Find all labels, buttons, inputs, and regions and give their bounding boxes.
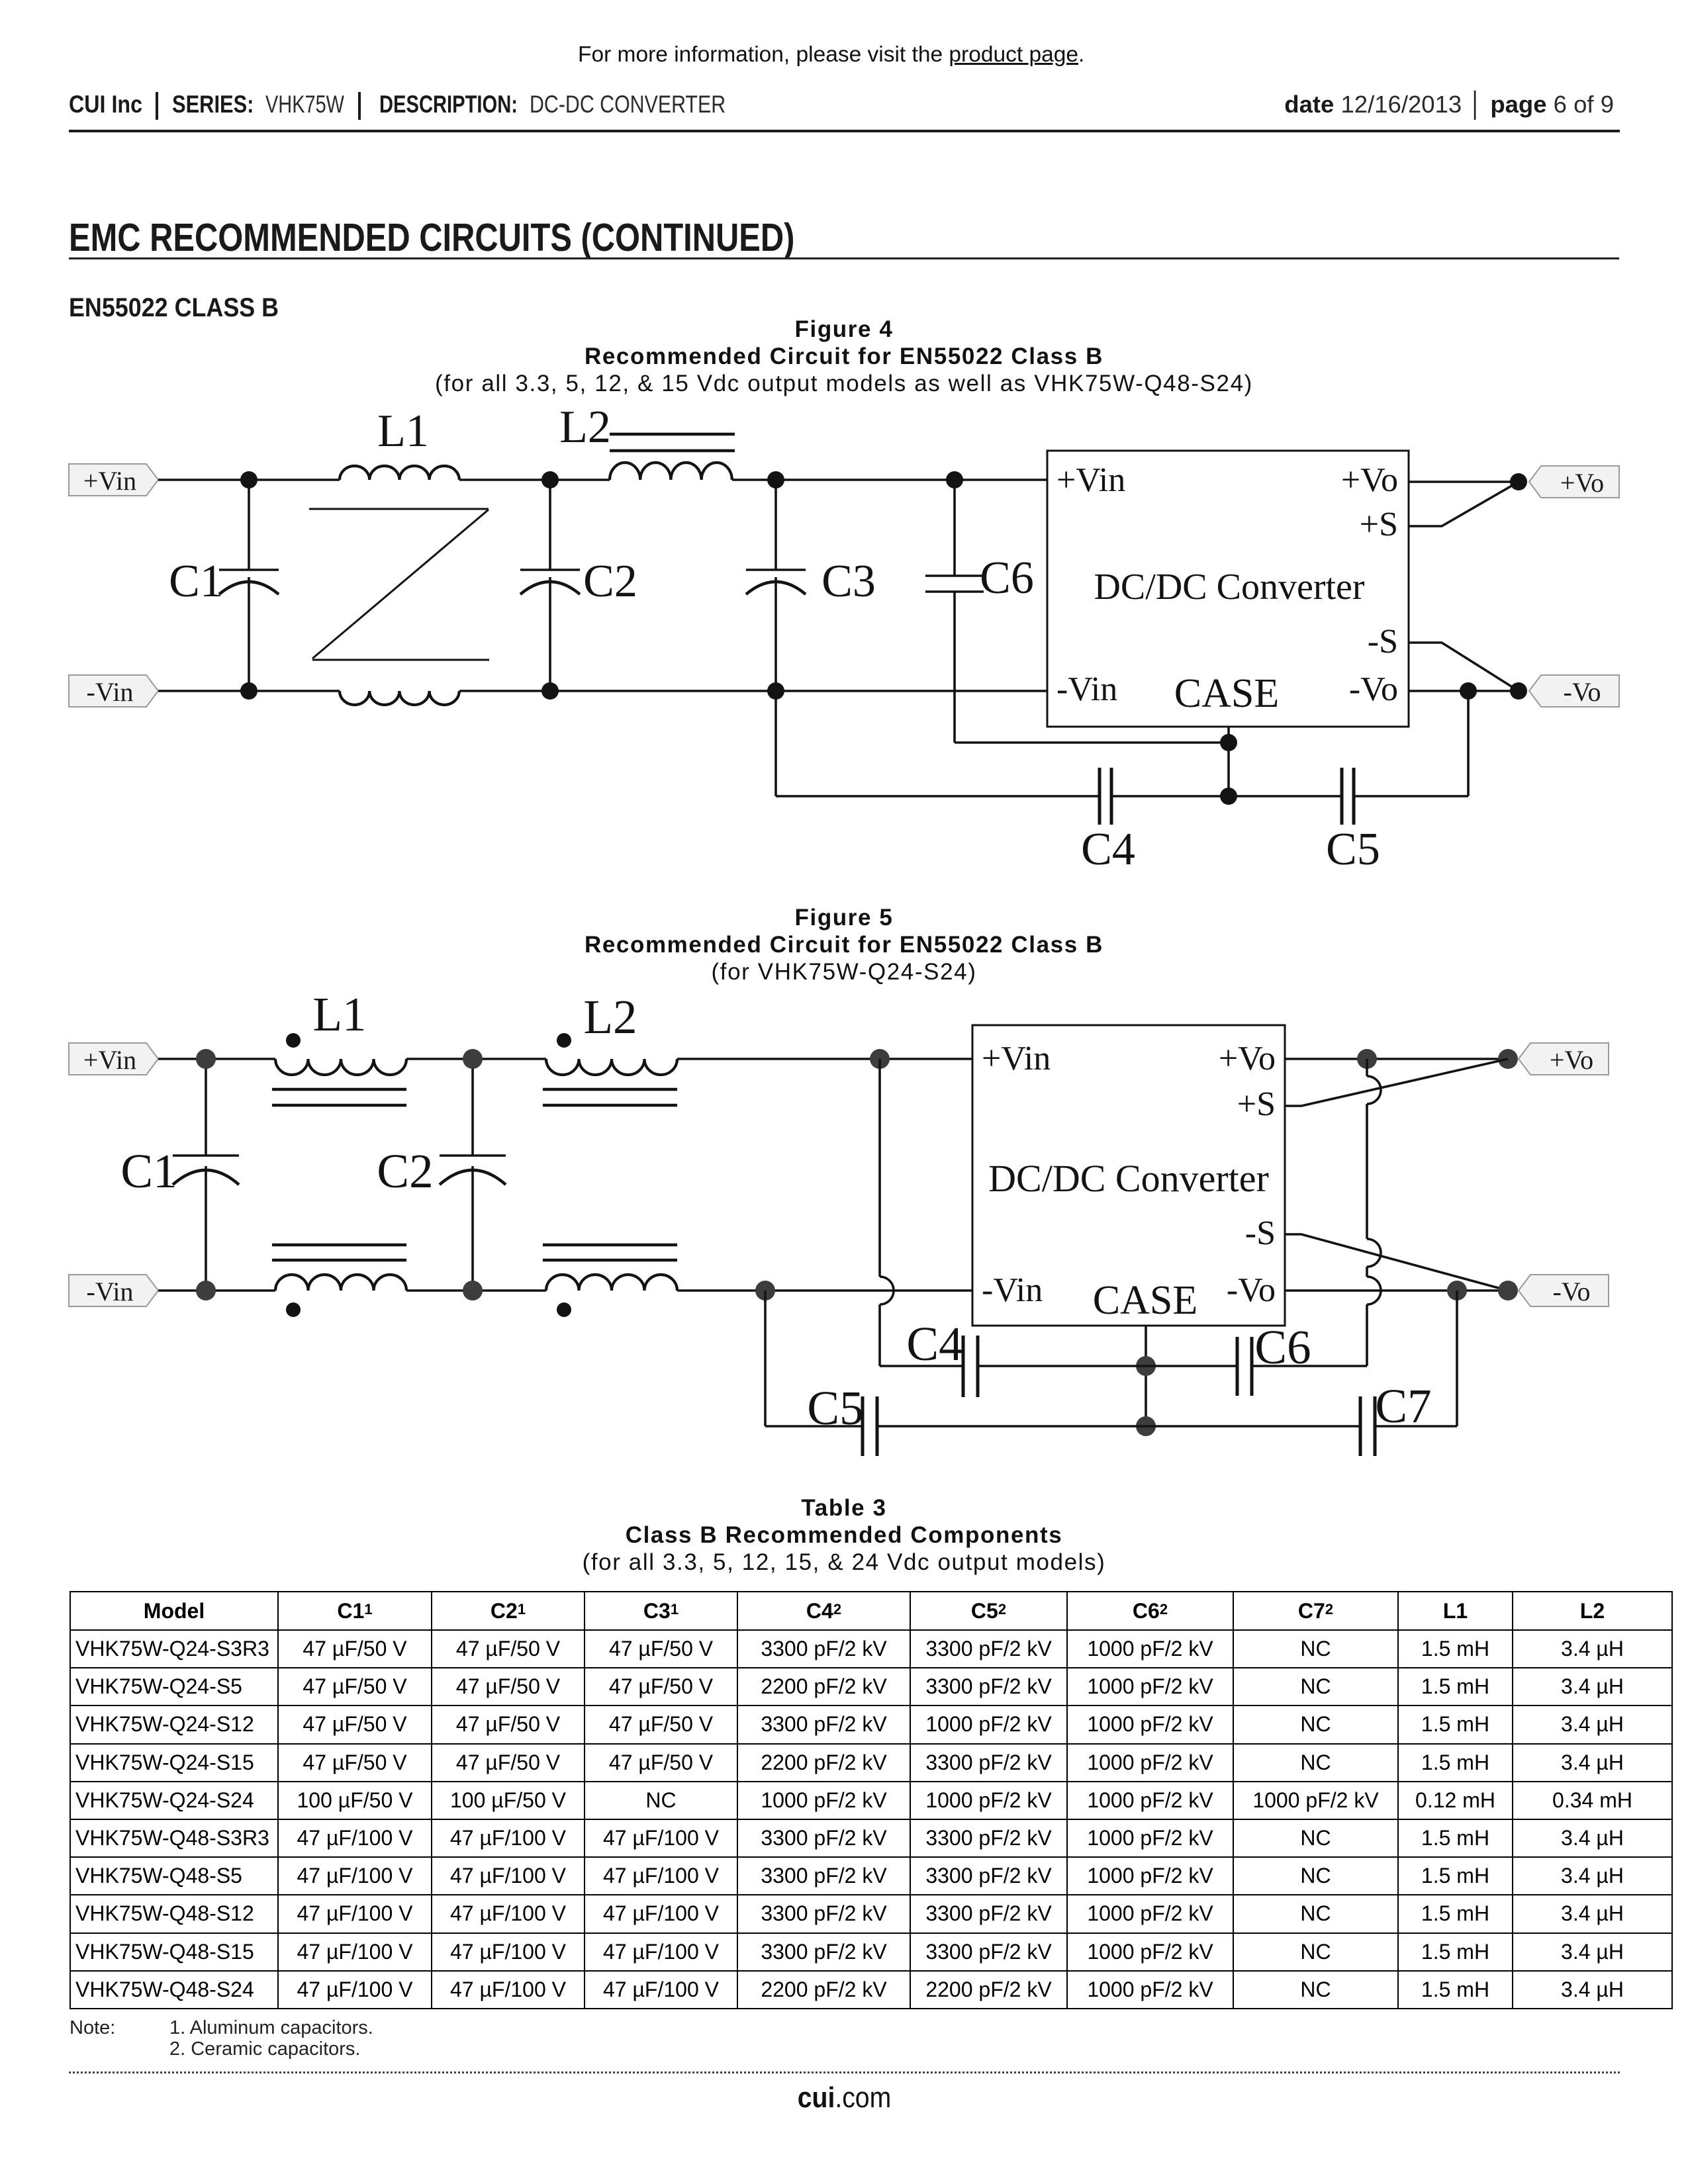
inductor L2 (fig 4) xyxy=(559,402,735,480)
svg-text:C6: C6 xyxy=(1254,1320,1311,1374)
junction dots CASE (fig 5) xyxy=(1136,1356,1156,1436)
svg-text:C6: C6 xyxy=(980,553,1034,604)
svg-text:+S: +S xyxy=(1237,1085,1276,1123)
node -Vin input tag (fig 5) xyxy=(69,1275,158,1306)
svg-text:L1: L1 xyxy=(377,406,429,457)
svg-text:L1: L1 xyxy=(312,987,366,1041)
svg-text:L2: L2 xyxy=(583,990,637,1044)
wire -S pin (fig 4) xyxy=(1409,643,1519,691)
figure 4 titles xyxy=(0,316,1688,397)
wire -Vin rail (fig 5) xyxy=(158,1289,972,1292)
svg-text:-Vo: -Vo xyxy=(1227,1271,1276,1309)
wire C5 riser (fig 5) xyxy=(764,1291,767,1426)
top info line xyxy=(578,43,1084,67)
svg-text:-Vin: -Vin xyxy=(1056,670,1117,708)
svg-text:C4: C4 xyxy=(1081,824,1135,875)
figure 5 titles xyxy=(0,904,1688,985)
wire C4-C6 bus (fig 5) xyxy=(880,1365,1367,1367)
node -Vo output tag (fig 5) xyxy=(1519,1275,1609,1306)
wire +Vin rail (fig 5) xyxy=(158,1058,972,1060)
inductor L1 common-mode choke (fig 5) xyxy=(272,987,406,1317)
wire CASE pin (fig 5) xyxy=(1145,1326,1147,1426)
junction dots C3 (fig 4) xyxy=(767,471,784,700)
capacitor C6 (fig 5) xyxy=(1237,1320,1311,1396)
wire C6 riser with hops (fig 5) xyxy=(1367,1059,1381,1366)
svg-text:-Vo: -Vo xyxy=(1552,1277,1590,1306)
node +Vo output tag (fig 5) xyxy=(1519,1043,1609,1075)
svg-text:-S: -S xyxy=(1245,1214,1276,1252)
capacitor C7 (fig 5) xyxy=(1360,1379,1432,1456)
svg-text:+Vo: +Vo xyxy=(1560,468,1604,498)
wire +Vo pin (fig 5) xyxy=(1285,1058,1508,1060)
wire +Vo pin (fig 4) xyxy=(1409,480,1519,483)
node -Vin input tag (fig 4) xyxy=(69,675,158,707)
wire C4 riser with hop (fig 5) xyxy=(880,1059,894,1366)
svg-text:+S: +S xyxy=(1360,506,1398,543)
wire +Vin rail left (fig 4) xyxy=(158,478,1047,481)
node -Vo output tag (fig 4) xyxy=(1529,675,1619,707)
node +Vo output tag (fig 4) xyxy=(1529,466,1619,498)
inductor L1 common-mode choke (fig 4) xyxy=(309,406,489,705)
wire C6 to CASE (fig 4) xyxy=(955,741,1229,744)
capacitor C3 (fig 4) xyxy=(746,480,876,796)
svg-text:C5: C5 xyxy=(807,1381,863,1435)
junction dots +Vo (fig 5) xyxy=(1357,1049,1518,1069)
junction dots -Vo (fig 4) xyxy=(1460,682,1527,700)
table 3 xyxy=(70,1591,1673,2009)
svg-text:L2: L2 xyxy=(559,402,611,453)
svg-text:C1: C1 xyxy=(120,1144,177,1198)
capacitor C2 (fig 4) xyxy=(520,480,637,691)
node +Vin input tag (fig 4) xyxy=(69,464,158,496)
svg-text:+Vin: +Vin xyxy=(982,1040,1051,1077)
section title xyxy=(69,217,945,258)
svg-text:-Vin: -Vin xyxy=(87,1277,134,1306)
svg-text:CASE: CASE xyxy=(1174,671,1279,716)
junction dots C2 (fig 5) xyxy=(463,1049,483,1300)
svg-text:C3: C3 xyxy=(821,556,876,607)
wire -Vo pin (fig 4) xyxy=(1409,690,1519,692)
junction dot bottom rail x1156 (fig 5) xyxy=(755,1281,775,1300)
svg-text:C4: C4 xyxy=(906,1317,962,1371)
svg-text:+Vin: +Vin xyxy=(1056,461,1125,499)
svg-text:CASE: CASE xyxy=(1093,1278,1197,1323)
svg-text:DC/DC Converter: DC/DC Converter xyxy=(1094,567,1364,608)
junction dot CASE (fig 4) xyxy=(1220,734,1237,751)
svg-text:-Vin: -Vin xyxy=(982,1271,1043,1309)
capacitor C4 (fig 5) xyxy=(906,1317,978,1397)
capacitor C6 (fig 4) xyxy=(925,480,1034,743)
svg-text:-Vo: -Vo xyxy=(1349,670,1398,708)
header row xyxy=(69,91,153,118)
svg-text:+Vin: +Vin xyxy=(83,1045,136,1075)
junction dots C1 (fig 4) xyxy=(240,471,258,700)
svg-text:+Vo: +Vo xyxy=(1550,1045,1593,1075)
wire +S pin diagonal (fig 5) xyxy=(1285,1059,1508,1106)
svg-text:+Vo: +Vo xyxy=(1219,1040,1276,1077)
svg-text:DC/DC Converter: DC/DC Converter xyxy=(988,1157,1269,1200)
wire C5-C7 bus (fig 5) xyxy=(765,1291,1457,1426)
junction dots -Vo (fig 5) xyxy=(1447,1281,1518,1300)
svg-text:C1: C1 xyxy=(169,556,223,607)
svg-text:+Vo: +Vo xyxy=(1341,461,1398,499)
svg-text:+Vin: +Vin xyxy=(83,466,136,496)
junction dot bottom bus (fig 4) xyxy=(1220,788,1237,805)
svg-text:C2: C2 xyxy=(583,556,637,607)
svg-text:C5: C5 xyxy=(1326,824,1380,875)
svg-text:-S: -S xyxy=(1368,623,1398,660)
junction dot C6 top (fig 4) xyxy=(946,471,963,488)
wire -S pin diagonal (fig 5) xyxy=(1285,1234,1508,1291)
inductor L2 common-mode choke (fig 5) xyxy=(543,990,677,1317)
svg-text:C7: C7 xyxy=(1375,1379,1431,1433)
capacitor C5 (fig 4) xyxy=(1326,768,1380,875)
capacitor C5 (fig 5) xyxy=(807,1381,877,1456)
junction dots C1 (fig 5) xyxy=(196,1049,216,1300)
capacitor C1 (fig 4) xyxy=(169,480,279,691)
junction dots C2 (fig 4) xyxy=(541,471,559,700)
capacitor C4 (fig 4) xyxy=(1081,768,1135,875)
wire bottom ground bus (fig 4) xyxy=(776,691,1468,796)
table titles xyxy=(0,1494,1688,1576)
notes xyxy=(70,2017,115,2038)
node +Vin input tag (fig 5) xyxy=(69,1043,158,1075)
wire +S pin (fig 4) xyxy=(1409,482,1519,526)
wire CASE pin (fig 4) xyxy=(1227,727,1230,796)
svg-text:-Vin: -Vin xyxy=(87,677,134,707)
junction dot +Vo (fig 4) xyxy=(1510,473,1527,490)
svg-text:C2: C2 xyxy=(377,1144,433,1198)
wire -Vin rail (fig 4) xyxy=(158,690,1047,692)
svg-text:-Vo: -Vo xyxy=(1563,677,1601,707)
DC/DC converter U1 (fig 4) xyxy=(1047,451,1409,727)
capacitor C1 (fig 5) xyxy=(120,1059,239,1291)
capacitor C2 (fig 5) xyxy=(377,1059,506,1291)
DC/DC converter U2 (fig 5) xyxy=(972,1025,1285,1326)
junction dot top rail x1329 (fig 5) xyxy=(870,1049,890,1069)
subsection xyxy=(69,293,303,322)
wire -Vo pin (fig 5) xyxy=(1285,1289,1508,1292)
footer xyxy=(69,2071,1620,2073)
